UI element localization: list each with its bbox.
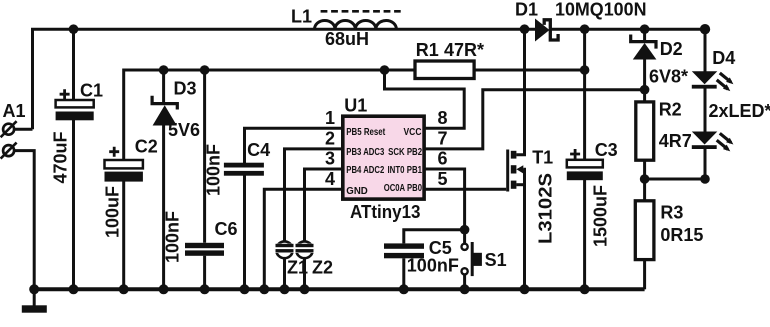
wire C2 bottom (122, 182, 125, 290)
wire D4 bottom (704, 149, 707, 179)
junction ground C3 (580, 284, 590, 294)
svg-text:D1: D1 (515, 0, 538, 20)
junction C5 / S1 / PB1 node (460, 225, 470, 235)
resistor R2 (636, 100, 692, 161)
junction D4 top corner (700, 24, 710, 34)
svg-text:4: 4 (325, 169, 335, 189)
junction R2 bottom / R3 top (640, 174, 650, 184)
wire C6 bottom (203, 256, 206, 290)
wire Z2 bottom (303, 258, 306, 289)
wire D3 anode to ground (162, 125, 165, 289)
capacitor C3 (567, 140, 618, 247)
wire C3 bottom (583, 180, 586, 289)
svg-text:R1: R1 (416, 40, 439, 60)
wire VCC rail y=70 (124, 70, 585, 159)
wire top rail right of D1 (550, 28, 705, 31)
wire pin2 to Z1 (285, 149, 343, 242)
junction ground Z2 (300, 284, 310, 294)
svg-text:A1: A1 (3, 101, 26, 121)
junction ground T1 source (520, 284, 530, 294)
svg-text:R2: R2 (659, 100, 682, 120)
svg-text:ATtiny13: ATtiny13 (350, 202, 421, 222)
svg-text:Z1: Z1 (287, 258, 308, 278)
svg-text:7: 7 (437, 129, 447, 149)
connector A1 (1, 101, 26, 159)
junction D3 VCC rail (159, 65, 169, 75)
wire D3 column (162, 70, 165, 102)
junction ground Z1 (280, 284, 290, 294)
capacitor C5 (384, 238, 459, 276)
wire C4 bottom (243, 175, 246, 289)
junction R1 right / C3 / D1 output node (580, 65, 590, 75)
junction ground C2 (119, 284, 129, 294)
wire D2 top (643, 29, 646, 41)
svg-text:100nF: 100nF (163, 211, 183, 263)
wire pin4 to ground (264, 189, 342, 289)
wire D4 between LEDs (704, 88, 707, 131)
wire top rail left of D1 (33, 29, 536, 129)
wire D4 column (704, 29, 707, 71)
zener diode D2 (631, 35, 688, 87)
wire T1 source lead (516, 183, 524, 186)
svg-text:L1: L1 (291, 7, 312, 27)
junction D4 bottom (700, 174, 710, 184)
diode D1 (schottky) (515, 0, 647, 42)
svg-text:470uF: 470uF (51, 131, 71, 183)
svg-text:100nF: 100nF (407, 256, 459, 276)
svg-text:C1: C1 (80, 81, 103, 101)
svg-text:T1: T1 (532, 148, 553, 168)
svg-text:C6: C6 (215, 219, 238, 239)
wire pin3 to Z2 (305, 169, 343, 242)
junction D1 cathode / output rail (580, 24, 590, 34)
resistor R1 (415, 40, 484, 79)
capacitor C4 (204, 140, 271, 196)
svg-text:68uH: 68uH (325, 29, 369, 49)
junction D2 cathode top rail (640, 24, 650, 34)
svg-text:1500uF: 1500uF (591, 185, 611, 247)
svg-text:S1: S1 (485, 250, 507, 270)
wire R2 bottom to R3 top (643, 160, 646, 201)
wire pin8 VCC link (385, 70, 465, 128)
svg-text:Z2: Z2 (312, 258, 333, 278)
wire R3 bottom to ground (643, 259, 646, 289)
svg-text:4R7: 4R7 (659, 131, 692, 151)
resistor R3 (635, 201, 703, 260)
svg-text:0R15: 0R15 (660, 225, 703, 245)
capacitor C2 (103, 136, 158, 238)
junction R1 left / pin8 branch (380, 65, 390, 75)
IC U1 ATtiny13 (325, 96, 448, 222)
svg-text:D3: D3 (174, 79, 197, 99)
junction ground D3 (159, 284, 169, 294)
svg-text:SCK PB2: SCK PB2 (388, 147, 422, 158)
wire Z1 bottom (283, 258, 286, 289)
wire S1 bottom (463, 274, 466, 289)
wire R2/D4 bottom link (645, 178, 705, 181)
junction switch node (L1/D1/T1 drain) (520, 24, 530, 34)
svg-text:U1: U1 (344, 96, 367, 116)
svg-text:D4: D4 (712, 48, 735, 68)
wire C1 bottom (72, 120, 75, 289)
svg-text:2xLED*: 2xLED* (709, 101, 770, 121)
junction ground U1 pin4 (259, 284, 269, 294)
svg-text:6: 6 (437, 149, 447, 169)
svg-text:R3: R3 (660, 202, 683, 222)
ground rail (33, 287, 645, 291)
svg-text:D2: D2 (660, 39, 683, 59)
wire C3 top (583, 70, 586, 160)
svg-text:6V8*: 6V8* (649, 67, 688, 87)
wire A1 upper terminal to top rail (15, 128, 33, 131)
wire pin5 to T1 gate (425, 188, 506, 191)
wire C6 top (203, 70, 206, 243)
svg-text:PB3 ADC3: PB3 ADC3 (346, 147, 384, 158)
svg-text:INT0 PB1: INT0 PB1 (388, 165, 423, 176)
junction ground A1 (29, 284, 39, 294)
wire C1 top (72, 29, 75, 100)
junction C1 top rail (69, 24, 79, 34)
zener diode D3 (152, 79, 200, 141)
svg-text:5V6: 5V6 (168, 120, 200, 140)
junction C6 VCC rail (200, 65, 210, 75)
ground symbol (22, 305, 47, 312)
wire pin6 down to C5/S1 node (425, 169, 465, 244)
svg-text:GND: GND (346, 186, 368, 197)
junction ground C1 (69, 284, 79, 294)
wire T1 source/body to ground (523, 169, 524, 289)
inductor L1 (291, 7, 401, 50)
svg-text:VCC: VCC (404, 127, 422, 138)
wire pin1 to C4 (245, 128, 343, 163)
svg-text:5: 5 (437, 169, 447, 189)
svg-text:2: 2 (325, 129, 335, 149)
jumper Z1 (275, 241, 308, 277)
svg-text:100uF: 100uF (103, 186, 123, 238)
wire C5 branch (404, 230, 465, 244)
wire A1 lower terminal to ground (15, 151, 34, 290)
wire T1 drain to switch node (516, 29, 524, 155)
svg-text:C2: C2 (135, 136, 158, 156)
transistor T1 (MOSFET) (508, 148, 556, 245)
junction ground C4 (240, 284, 250, 294)
capacitor C6 (163, 211, 238, 263)
wire pin7 to D2/R2 node (425, 90, 645, 149)
svg-text:PB5 Reset: PB5 Reset (346, 127, 386, 138)
svg-text:OC0A PB0: OC0A PB0 (384, 183, 423, 194)
wire D1 cathode down to output node (583, 29, 586, 70)
svg-text:3: 3 (325, 149, 335, 169)
svg-text:C4: C4 (247, 140, 270, 160)
svg-text:PB4 ADC2: PB4 ADC2 (346, 165, 384, 176)
svg-text:100nF: 100nF (204, 144, 224, 196)
LED D4 (two LEDs) (692, 48, 770, 151)
wire D2 anode to node (643, 59, 646, 102)
svg-text:C3: C3 (595, 140, 618, 160)
capacitor C1 (51, 81, 104, 184)
ground stub (33, 289, 36, 305)
svg-text:8: 8 (437, 108, 447, 128)
svg-text:10MQ100N: 10MQ100N (555, 0, 647, 20)
junction ground S1 (460, 284, 470, 294)
pushbutton S1 (462, 242, 507, 276)
junction D2 anode / R2 top / PB2 sense node (640, 85, 650, 95)
svg-text:L3102S: L3102S (536, 173, 556, 244)
svg-text:1: 1 (325, 108, 335, 128)
svg-text:47R*: 47R* (444, 40, 484, 60)
junction ground C6 (200, 284, 210, 294)
junction ground C5 (399, 284, 409, 294)
jumper Z2 (295, 241, 333, 277)
wire C5 bottom (402, 258, 405, 289)
